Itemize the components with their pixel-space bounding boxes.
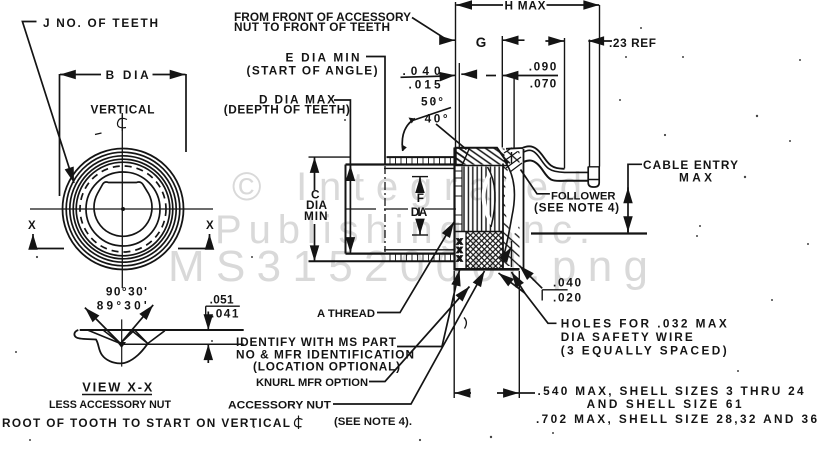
white relief arc across knurl <box>484 172 492 224</box>
svg-text:.702 MAX, SHELL SIZE 28,32 AND: .702 MAX, SHELL SIZE 28,32 AND 36 <box>536 412 817 426</box>
svg-text:(DEEPTH OF TEETH): (DEEPTH OF TEETH) <box>224 103 350 117</box>
leader J NO. OF TEETH <box>22 22 74 184</box>
knurl to crosshatch boundary <box>455 231 503 233</box>
tooth detail root line <box>124 343 244 345</box>
left view keyway bore circle <box>94 182 152 236</box>
barrel top second line <box>346 163 455 165</box>
leader E DIA MIN <box>366 57 385 165</box>
tooth detail top line <box>80 329 244 331</box>
svg-text:F: F <box>417 191 424 205</box>
accessory nut right edge <box>502 164 504 269</box>
left view outer ring circles <box>63 149 184 270</box>
nut rear bottom line <box>531 232 647 234</box>
nut back edge vertical <box>523 149 525 270</box>
left view inner circle <box>86 172 160 246</box>
dimension H MAX <box>456 4 599 6</box>
dimension .051/.041 bracket <box>206 306 240 315</box>
knurl left boundary <box>461 167 463 232</box>
leader FROM FRONT OF ACCESSORY NUT <box>412 18 455 41</box>
svg-text:LESS ACCESSORY NUT: LESS ACCESSORY NUT <box>49 399 171 411</box>
svg-text:(LOCATION OPTIONAL): (LOCATION OPTIONAL) <box>253 360 400 374</box>
barrel front face <box>345 165 347 254</box>
knurl ticks left strip <box>456 171 462 224</box>
ferrule tick lines <box>588 167 599 180</box>
accessory nut front lip <box>456 148 470 165</box>
tooth detail blob outline <box>74 330 147 363</box>
tooth detail angle leg left <box>85 308 121 344</box>
svg-text:X: X <box>457 254 462 263</box>
nut back corner hatch lines <box>504 148 522 172</box>
leader HOLES FOR SAFETY WIRE <box>512 272 557 323</box>
svg-text:40°: 40° <box>425 112 448 126</box>
leader KNURL MFR OPTION <box>369 287 470 382</box>
dimension .040/.015 bar and leader <box>401 74 474 77</box>
svg-text:.051: .051 <box>210 293 234 307</box>
barrel bottom third line <box>384 249 455 251</box>
nut back relief blob <box>505 160 522 234</box>
teeth tick marks barrel top <box>390 158 451 165</box>
barrel centerline <box>345 208 456 210</box>
svg-text:G: G <box>476 35 487 50</box>
safety wire hole mark <box>505 247 512 258</box>
svg-text:ACCESSORY NUT: ACCESSORY NUT <box>228 400 331 412</box>
cable entry arrows <box>627 187 629 197</box>
accessory nut left edge <box>453 148 455 271</box>
center dot left view <box>121 207 125 211</box>
svg-text:E DIA MIN: E DIA MIN <box>286 51 360 65</box>
extension line .090 right <box>513 76 515 150</box>
centerline symbol under VERTICAL <box>117 115 127 131</box>
svg-text:HOLES FOR .032 MAX: HOLES FOR .032 MAX <box>561 317 727 331</box>
angle 50/40 arc <box>402 119 415 152</box>
dimension B DIA <box>60 74 187 196</box>
leader A THREAD <box>377 222 454 313</box>
small dash mark <box>95 133 102 135</box>
extension line ferrule right / H MAX right <box>599 5 601 167</box>
svg-text:.540 MAX, SHELL SIZES 3 THRU: .540 MAX, SHELL SIZES 3 THRU 24 <box>538 384 804 398</box>
accessory nut thread hatch band <box>456 149 505 165</box>
extension line nut front face <box>455 2 457 147</box>
svg-text:B DIA: B DIA <box>106 68 149 82</box>
nut back slot curve <box>504 160 514 255</box>
svg-text:.090: .090 <box>529 60 557 74</box>
left view horizontal centerline <box>30 208 213 210</box>
left view dashed teeth circle <box>80 166 166 252</box>
tooth detail angle leg right <box>120 305 153 344</box>
svg-text:VERTICAL: VERTICAL <box>91 103 155 117</box>
svg-text:.041: .041 <box>211 307 239 321</box>
svg-text:A THREAD: A THREAD <box>317 308 375 320</box>
tooth detail V flanks <box>88 330 165 344</box>
accessory nut top edge <box>455 148 509 164</box>
follower boot lower curve <box>524 160 589 180</box>
svg-text:NUT TO FRONT OF TEETH: NUT TO FRONT OF TEETH <box>234 20 390 34</box>
svg-text:CABLE ENTRY: CABLE ENTRY <box>643 158 738 172</box>
accessory nut band bottom line <box>455 165 509 167</box>
dimension .540 arrows <box>455 392 535 394</box>
svg-text:MAX: MAX <box>679 171 712 185</box>
svg-text:.020: .020 <box>553 291 581 305</box>
leader ACCESSORY NUT <box>333 271 485 404</box>
extension line rear rim <box>564 38 566 169</box>
extension line front of teeth <box>458 63 460 147</box>
nut back inner vertical <box>511 152 513 267</box>
identify blank line and leader <box>397 270 460 347</box>
underline VIEW X-X <box>82 394 152 396</box>
svg-text:.040: .040 <box>553 276 581 290</box>
svg-text:(SEE NOTE 4).: (SEE NOTE 4). <box>334 416 412 428</box>
barrel top crest line <box>309 156 351 158</box>
dimension .540 extension right <box>518 271 520 398</box>
extension line G right <box>501 36 503 148</box>
nut back top edge <box>506 147 522 150</box>
dimension D DIA MAX leader and line <box>334 100 350 253</box>
svg-text:H MAX: H MAX <box>505 0 546 13</box>
dimension .540 extension left <box>453 271 455 398</box>
section mark X left <box>33 234 64 249</box>
accessory nut crosshatch region <box>466 232 503 268</box>
cable entry ferrule <box>588 167 599 188</box>
accessory nut knurl region vertical lines <box>462 167 503 232</box>
dimension G arrows <box>503 38 564 42</box>
follower boot middle curve <box>523 150 588 172</box>
follower boot upper curve <box>522 146 565 168</box>
dimension C DIA MIN <box>314 157 316 261</box>
svg-text:(SEE NOTE 4): (SEE NOTE 4) <box>534 201 619 215</box>
leader dimension .040/.020 <box>519 266 542 289</box>
leader HOLES second branch <box>499 273 525 293</box>
dimension F DIA <box>412 177 428 235</box>
angle 50/40 leader to teeth <box>436 124 467 150</box>
tooth detail centerline <box>121 319 123 366</box>
svg-text:X: X <box>28 220 36 232</box>
teeth tick marks barrel bottom <box>390 254 451 261</box>
leader FOLLOWER <box>521 170 550 194</box>
extension line ferrule left <box>589 40 591 167</box>
svg-text:.23 REF: .23 REF <box>609 36 656 50</box>
svg-text:50°: 50° <box>421 95 443 109</box>
svg-text:KNURL MFR OPTION: KNURL MFR OPTION <box>256 377 368 389</box>
centerline symbol after VERTICAL bottom <box>294 416 302 430</box>
svg-text:DIA: DIA <box>411 205 428 219</box>
svg-text:(3 EQUALLY SPACED): (3 EQUALLY SPACED) <box>561 344 727 358</box>
accessory nut bottom edge <box>454 268 520 271</box>
nut back section hatch <box>504 151 520 266</box>
leader CABLE ENTRY MAX <box>628 164 642 233</box>
svg-text:J NO. OF TEETH: J NO. OF TEETH <box>43 16 158 30</box>
hidden extension E DIA dashed <box>384 166 386 252</box>
angle 50/40 divider line <box>411 108 451 122</box>
dimension .23 REF arrow <box>588 40 612 42</box>
svg-text:X: X <box>206 220 214 232</box>
barrel bottom second line <box>346 253 455 255</box>
svg-text:90°30': 90°30' <box>106 285 147 299</box>
follower hidden curve in knurl <box>488 167 496 227</box>
dimension .090/.070 bar <box>486 75 558 77</box>
dimension .040/.020 bracket <box>542 290 567 301</box>
crosshatch left boundary <box>465 232 467 268</box>
left view vertical centerline <box>121 113 123 288</box>
svg-text:MIN: MIN <box>304 209 328 223</box>
barrel top third line <box>384 167 455 169</box>
dimension .051/.041 arrows <box>207 312 209 331</box>
small hook mark near fan <box>464 318 466 329</box>
svg-text:(START OF ANGLE): (START OF ANGLE) <box>247 64 378 78</box>
svg-text:.070: .070 <box>530 77 557 91</box>
section mark X right <box>178 234 210 249</box>
barrel bottom crest line <box>309 260 456 262</box>
